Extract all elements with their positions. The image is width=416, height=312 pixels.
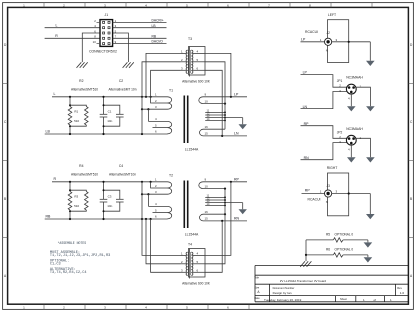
svg-text:10: 10 <box>205 184 209 188</box>
svg-text:N: N <box>326 49 328 53</box>
svg-text:N: N <box>326 200 328 204</box>
svg-text:10n: 10n <box>107 119 112 123</box>
svg-text:AlternativeSMT 10n: AlternativeSMT 10n <box>109 88 137 92</box>
T1 primary winding 4-5-6 <box>149 121 172 134</box>
svg-text:Sheet: Sheet <box>340 297 347 301</box>
XLR JP2 connector circle <box>346 135 356 145</box>
svg-text:15: 15 <box>205 217 209 221</box>
svg-text:15: 15 <box>205 132 209 136</box>
svg-text:RIGHT: RIGHT <box>327 166 338 170</box>
svg-text:R5: R5 <box>326 232 330 236</box>
wire J1 pin9 net DACI <box>113 43 167 45</box>
RCA J3 jack circle <box>325 190 332 197</box>
svg-text:RB: RB <box>46 215 52 219</box>
svg-text:16: 16 <box>205 125 209 129</box>
svg-text:T4: T4 <box>188 243 192 247</box>
svg-text:OPTIONAL 0: OPTIONAL 0 <box>335 247 354 251</box>
wire R5 to ground arrow <box>367 240 369 243</box>
wire J1 pin5 to ground <box>113 33 129 62</box>
wire T3 pin3 to T1 pin2 <box>151 70 181 103</box>
power ground arrow at T2 <box>239 209 247 214</box>
ground symbol below J1 right <box>123 62 134 68</box>
RCA jack J2 body <box>328 20 349 63</box>
J1 pin numbers left <box>93 19 97 44</box>
svg-text:CONNECTOR5X2: CONNECTOR5X2 <box>89 50 117 54</box>
T1 center tap stubs 11-14 <box>205 112 243 120</box>
T1 pin numbers 16 15 <box>205 125 209 136</box>
svg-text:RN: RN <box>304 156 310 160</box>
zone numbers bottom <box>23 305 229 309</box>
RCA J3 pin 3 wire to ground <box>332 194 371 215</box>
XLR JP1 pin numbers 2 3 1 <box>339 84 361 93</box>
wire net RP to JP2 pin2 <box>301 126 347 139</box>
J1 pin pads <box>103 21 110 44</box>
svg-text:L: L <box>56 23 58 27</box>
capacitor C4 parallel branch <box>104 190 124 211</box>
zone numbers top <box>23 3 311 7</box>
right zone tick marks <box>409 84 414 238</box>
junction dots RC network R <box>69 181 105 220</box>
power ground arrow R6 <box>364 257 373 262</box>
connector J1 body <box>100 20 113 47</box>
svg-text:RP: RP <box>304 122 310 126</box>
svg-text:LEFT: LEFT <box>328 13 336 17</box>
wire net RB <box>45 218 168 220</box>
svg-text:Alternative 600 10K: Alternative 600 10K <box>182 79 211 83</box>
junction dots T2 left <box>141 181 152 220</box>
T1 pin numbers 9 10 <box>205 93 209 104</box>
capacitor C3 (plates on main lead) <box>100 182 108 219</box>
svg-text:Rev: Rev <box>397 286 402 290</box>
wire T4 pin4 to net RP <box>205 182 231 256</box>
wire T2 R to pin2 parallel link <box>151 182 153 188</box>
T3 alternative box <box>189 47 206 76</box>
svg-text:DACI/O: DACI/O <box>152 40 164 44</box>
resistor R6 (horizontal zigzag) <box>306 253 368 257</box>
svg-text:510: 510 <box>74 204 79 208</box>
power ground arrow JP2 shell <box>347 157 356 162</box>
wire T3 pin1 to net L <box>146 53 181 96</box>
svg-text:16: 16 <box>205 210 209 214</box>
T2 pin numbers 16 15 <box>205 210 209 221</box>
svg-text:L: L <box>54 92 56 96</box>
junction dot RCA J2 <box>348 41 350 43</box>
wire net RN to JP2 pin3 <box>301 143 347 160</box>
svg-text:510: 510 <box>74 119 79 123</box>
XLR JP2 shell stub to ground <box>350 145 352 157</box>
svg-text:I/V LL1544A Transformer I/V bo: I/V LL1544A Transformer I/V board <box>280 279 327 283</box>
T4 pin numbers 1 2 3 <box>181 251 183 272</box>
T2 secondary winding 16-15 <box>200 214 247 221</box>
T2 primary winding 1-2-3 <box>142 182 172 194</box>
power ground arrow at T1 <box>239 124 247 129</box>
wire T4 pin3 to net RB right <box>151 219 181 272</box>
wire net R <box>52 181 168 183</box>
svg-text:LP: LP <box>234 92 239 96</box>
svg-text:LP: LP <box>301 37 306 41</box>
power ground arrow RCA J2 <box>366 61 375 66</box>
title block outline <box>255 266 408 302</box>
svg-text:of: of <box>374 298 377 302</box>
RCA J2 center pin dot <box>326 40 329 43</box>
svg-text:JP1: JP1 <box>337 79 343 83</box>
T4 core lines <box>189 252 190 275</box>
resistor R2 parallel branch (zigzag) <box>70 105 88 126</box>
wire J1 pin6 to ground <box>82 33 100 62</box>
capacitor C2 parallel branch <box>104 105 124 126</box>
junction dots RC network L <box>69 96 105 135</box>
power ground arrow JP2 pin1 <box>366 157 375 162</box>
svg-text:LB: LB <box>46 130 51 134</box>
T4 left pin wires <box>181 255 187 272</box>
T4 right pin wires <box>193 255 205 272</box>
junction dots T1 left <box>141 96 152 135</box>
zone letters left <box>4 43 7 278</box>
svg-text:AlternativeSMT510: AlternativeSMT510 <box>71 173 98 177</box>
XLR JP2 pin1 wire to ground <box>356 138 370 157</box>
earth ground symbol (slashes) <box>300 261 311 267</box>
svg-text:J3: J3 <box>327 184 331 188</box>
RCA jack J3 body <box>328 173 349 216</box>
svg-text:RCACUI: RCACUI <box>305 30 318 34</box>
ground symbol below J1 left <box>77 62 88 68</box>
wire T1 pin3 to pin4 parallel link <box>147 109 149 121</box>
wire T4 pin1 to net R <box>142 182 181 256</box>
svg-text:JP2: JP2 <box>337 130 343 134</box>
svg-text:B: B <box>4 197 6 201</box>
wire net R to J1 <box>45 37 100 39</box>
wire net LP to JP1 pin2 <box>301 75 347 88</box>
svg-text:R6: R6 <box>326 247 330 251</box>
T3 pin numbers 1 2 3 <box>181 49 183 70</box>
T1 pin numbers 1 2 3 <box>155 93 157 109</box>
XLR JP1 pin dots <box>348 86 355 93</box>
svg-text:RB: RB <box>152 34 157 38</box>
T1 secondary winding 16-15 <box>200 129 247 136</box>
junction dots T2 right <box>221 181 232 222</box>
svg-text:OPTIONAL 0: OPTIONAL 0 <box>335 232 354 236</box>
power ground arrow JP1 pin1 <box>366 106 375 111</box>
svg-text:J2: J2 <box>327 31 331 35</box>
wire T2 pin3 to pin4 parallel link <box>147 194 149 206</box>
wire R6 to ground arrow <box>367 255 369 257</box>
svg-text:LL1544A: LL1544A <box>185 232 199 236</box>
power ground arrow RCA J3 <box>366 214 375 219</box>
wire J1 pin1 net DACR <box>113 21 167 23</box>
svg-text:RN: RN <box>234 217 240 221</box>
top zone tick marks <box>44 3 372 8</box>
svg-text:Alternative 600 10K: Alternative 600 10K <box>182 281 211 285</box>
wire T3 pin4 to net LP <box>205 53 231 96</box>
wire net L to J1 <box>45 27 100 29</box>
svg-text:C4: C4 <box>119 164 123 168</box>
svg-text:R3: R3 <box>74 195 78 199</box>
power ground arrow JP1 shell <box>347 106 356 111</box>
wire T2 ground branch <box>242 203 244 210</box>
svg-text:R1: R1 <box>74 110 78 114</box>
wire T3 pin5 to T1 center tap <box>205 62 225 129</box>
junction dot R5 R6 <box>305 254 307 256</box>
resistor R5 (horizontal zigzag) <box>306 238 368 242</box>
svg-text:Tuesday, February 26, 2019: Tuesday, February 26, 2019 <box>264 298 302 302</box>
svg-text:10n: 10n <box>107 204 112 208</box>
T1 secondary winding 9-10 <box>199 97 247 104</box>
resistor R1 (vertical zigzag on main lead) <box>68 97 72 134</box>
T1 primary winding 1-2-3 <box>142 97 172 109</box>
T3 pin numbers 4 5 6 <box>197 49 199 70</box>
T2 core <box>184 181 187 229</box>
svg-text:T1,T2,J1,J2,J3,JP1,JP2,R1,R3: T1,T2,J1,J2,J3,JP1,JP2,R1,R3 <box>50 254 110 258</box>
svg-text:RP: RP <box>305 188 311 192</box>
svg-text:Design by Ian: Design by Ian <box>273 291 292 295</box>
left zone tick marks <box>3 84 8 238</box>
junction dot RCA J3 <box>348 192 350 194</box>
XLR JP1 pin1 wire to ground <box>356 87 370 106</box>
XLR JP1 connector circle <box>346 84 356 94</box>
T4 pin numbers 4 5 6 <box>197 251 199 272</box>
svg-text:*ASSEMBLE NOTES: *ASSEMBLE NOTES <box>58 241 87 245</box>
svg-text:NC3MAAH: NC3MAAH <box>346 127 363 131</box>
T3 left pin wires <box>181 53 187 70</box>
XLR JP1 shell stub to ground <box>350 94 352 106</box>
svg-text:J1: J1 <box>105 13 109 17</box>
T1 pin numbers 4 5 6 <box>155 117 157 133</box>
wire T4 pin5 to T2 center tap <box>205 189 225 264</box>
wire T4 pin6 to net RN <box>205 221 222 272</box>
svg-text:T2: T2 <box>169 174 173 178</box>
svg-text:Document Number: Document Number <box>273 286 295 290</box>
svg-text:C1,C3: C1,C3 <box>50 262 61 266</box>
svg-text:NC3MAAH: NC3MAAH <box>346 76 363 80</box>
T4 alternative box <box>189 249 206 278</box>
svg-text:Title: Title <box>254 276 259 280</box>
T2 center tap stubs 11-14 <box>205 197 243 205</box>
wire T4 pin2 to net RB <box>146 219 181 264</box>
svg-text:DACR/+: DACR/+ <box>152 19 164 23</box>
svg-text:RCACUI: RCACUI <box>308 198 321 202</box>
svg-text:AlternativeSMT510: AlternativeSMT510 <box>71 88 98 92</box>
T3 core lines <box>189 50 190 73</box>
J1 left pin stubs <box>97 22 101 43</box>
wire net LB <box>45 133 168 135</box>
wire net RP to RCA J3 <box>302 193 325 195</box>
svg-text:T3,T4,R2,R4,C2,C4: T3,T4,R2,R4,C2,C4 <box>50 271 87 275</box>
wire net LP to RCA J2 <box>301 41 325 43</box>
wire T3 pin6 to net LN <box>205 70 222 136</box>
T2 pin numbers 1 2 3 <box>155 178 157 194</box>
T2 pin numbers 9 10 <box>205 178 209 189</box>
J1 pin numbers right <box>115 19 117 44</box>
svg-text:LN: LN <box>234 132 239 136</box>
T2 pin numbers 4 5 6 <box>155 202 157 218</box>
resistor R4 parallel branch (zigzag) <box>70 190 88 211</box>
svg-text:C1: C1 <box>108 110 112 114</box>
wire J1 pin7 net RB <box>113 37 167 39</box>
capacitor C1 (plates on main lead) <box>100 97 108 134</box>
resistor R3 (vertical zigzag on main lead) <box>68 182 72 219</box>
svg-text:LL1544A: LL1544A <box>185 147 199 151</box>
svg-text:R4: R4 <box>79 164 83 168</box>
T2 primary winding 4-5-6 <box>149 206 172 218</box>
junction dots T1 right <box>221 96 232 137</box>
svg-text:C2: C2 <box>119 79 123 83</box>
T1 pin numbers 11 12 13 14 <box>207 109 210 121</box>
svg-text:10: 10 <box>93 40 97 44</box>
T1 core <box>184 96 187 144</box>
svg-text:C3: C3 <box>108 195 112 199</box>
svg-text:Date: Date <box>254 296 260 300</box>
T2 pin numbers 11 12 13 14 <box>207 194 210 206</box>
svg-text:LP: LP <box>303 71 308 75</box>
svg-text:10: 10 <box>205 99 209 103</box>
wire net L <box>52 96 168 98</box>
wire T3 pin2 down to net LB <box>142 62 181 134</box>
svg-text:T3: T3 <box>188 37 192 41</box>
svg-text:AlternativeSMT10n: AlternativeSMT10n <box>109 173 136 177</box>
T3 right pin wires <box>193 53 205 70</box>
wire T1 ground branch <box>242 118 244 125</box>
svg-text:Size: Size <box>254 286 260 290</box>
svg-text:1.0: 1.0 <box>400 291 405 295</box>
svg-text:R2: R2 <box>79 79 83 83</box>
svg-text:B: B <box>410 197 412 201</box>
svg-text:RP: RP <box>234 177 240 181</box>
zone letters right <box>410 43 413 278</box>
RCA J3 center pin dot <box>326 192 329 195</box>
bottom zone tick marks <box>44 305 249 310</box>
svg-text:T1: T1 <box>169 89 173 93</box>
wire R5 R6 left join to earth <box>305 240 307 261</box>
T4 winding symbol <box>186 249 193 279</box>
XLR JP2 pin numbers 2 3 1 <box>339 135 361 144</box>
T2 secondary winding 9-10 <box>199 182 247 189</box>
RCA J2 pin 3 wire to ground <box>332 42 371 61</box>
power ground arrow R5 <box>364 242 373 247</box>
T3 winding symbol <box>186 47 193 77</box>
wire net LN to JP1 pin3 <box>301 92 347 109</box>
wire J1 pin3 net LB <box>113 27 167 29</box>
XLR JP2 pin dots <box>348 137 355 144</box>
RCA J2 jack circle <box>325 38 332 45</box>
